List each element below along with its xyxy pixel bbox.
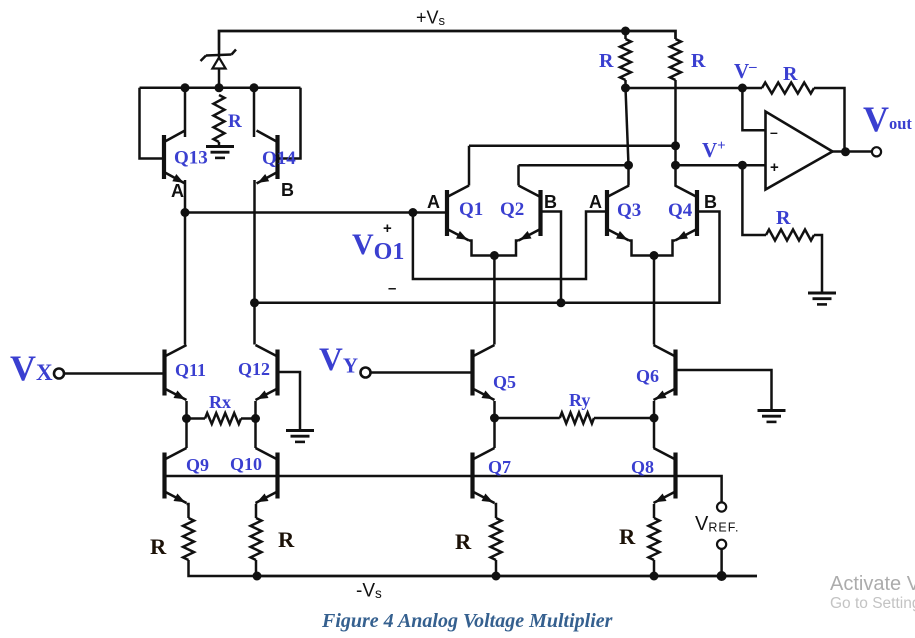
wire Q8 emitter stub: [653, 504, 656, 518]
junction rail / VREF: [717, 571, 727, 581]
wire Q1/Q2 tail: [493, 256, 496, 345]
svg-text:A: A: [589, 192, 602, 212]
wire Q14 base loop: [278, 88, 301, 159]
zener diode D1: [201, 50, 237, 88]
wire feedback to output: [814, 88, 845, 152]
junction Q1/Q4 collectors: [671, 141, 680, 150]
wire node A branch to Q3 base: [413, 212, 607, 280]
wire Q1 collector to right R: [469, 145, 676, 148]
wire Q1 emitter drop: [469, 241, 494, 256]
wire bias R bottom stub: [218, 142, 221, 146]
svg-text:Q6: Q6: [636, 366, 659, 386]
svg-text:Q7: Q7: [488, 457, 511, 477]
junction Q2/Q3 collectors: [624, 161, 633, 170]
op-amp U1: [766, 112, 833, 190]
wire Ry right lead: [594, 417, 654, 420]
wire -Vs rail: [257, 575, 757, 578]
junction Q1/Q2 emitters: [490, 251, 499, 260]
wire Q2 emitter drop: [494, 241, 518, 256]
svg-text:Q9: Q9: [186, 455, 209, 475]
resistor R (V+ to ground): [766, 230, 814, 241]
svg-text:Q4: Q4: [668, 200, 693, 221]
wire Q3/Q4 tail: [653, 256, 656, 345]
wire Ry left lead: [495, 417, 560, 420]
junction node A branch: [408, 208, 417, 217]
wire Q3 collector riser: [627, 165, 630, 185]
svg-text:Q3: Q3: [617, 200, 641, 221]
wire V- to op-amp inverting input: [742, 88, 765, 130]
wire Q7 emitter stub: [495, 504, 497, 518]
svg-text:Q1: Q1: [459, 199, 483, 220]
wire Q4 collector riser: [674, 146, 677, 187]
wire Q13 collector riser: [184, 88, 187, 137]
wire Q9 R to rail: [189, 560, 258, 576]
resistor R (Q10): [251, 518, 262, 560]
svg-text:B: B: [704, 192, 717, 212]
svg-text:R: R: [150, 534, 167, 559]
transistor Q2: [519, 186, 541, 241]
junction Rx right: [251, 414, 260, 423]
wire right load bottom: [674, 80, 677, 146]
resistor R (feedback): [762, 83, 814, 94]
junction top rail / left R: [621, 27, 630, 36]
wire Q9 emitter stub: [187, 504, 189, 518]
wire node B vertical: [253, 180, 256, 345]
svg-text:R: R: [228, 111, 242, 132]
resistor R (Q7): [491, 518, 502, 560]
svg-text:A: A: [427, 192, 440, 212]
ground (bias R): [206, 147, 234, 158]
wire VX to Q11 base: [64, 372, 165, 375]
junction node B / Q2 base: [557, 298, 566, 307]
wire VREF to rail: [720, 549, 723, 576]
wire Q2 base riser: [541, 212, 562, 303]
svg-text:Activate V: Activate V: [830, 573, 915, 595]
terminal VREF bottom: [717, 540, 726, 549]
transistor Q6: [654, 345, 676, 400]
wire Q10 R to rail: [255, 560, 258, 576]
junction output node: [841, 147, 850, 156]
wire Q14 collector riser: [253, 88, 256, 137]
transistor Q8: [654, 448, 676, 503]
svg-text:B: B: [544, 192, 557, 212]
svg-text:R: R: [619, 524, 636, 549]
wire node A vertical: [184, 180, 187, 345]
wire node A to Q1 base: [185, 211, 447, 214]
svg-text:Q10: Q10: [230, 454, 262, 474]
terminal Vout: [872, 147, 881, 156]
transistor Q3: [607, 186, 629, 241]
ground (op-amp R): [808, 293, 836, 304]
svg-text:R: R: [776, 207, 791, 229]
junction rail / Q8 R: [650, 572, 659, 581]
wire V+ to op-amp: [676, 164, 766, 167]
junction node A: [181, 208, 190, 217]
junction node B: [250, 298, 259, 307]
wire Rx left lead: [187, 417, 206, 420]
ground (Q6 base): [758, 411, 786, 422]
junction node bias / Q14 collector: [250, 83, 259, 92]
wire Rx right to Q10 collector: [254, 419, 257, 449]
svg-text:+: +: [383, 220, 392, 237]
wire Rx right lead: [241, 417, 256, 420]
transistor Q12: [256, 345, 278, 400]
resistor R (bias): [214, 95, 225, 142]
terminal VX: [54, 369, 64, 379]
wire Ry left to Q7 collector: [493, 418, 496, 448]
svg-text:–: –: [388, 280, 396, 297]
wire Q2 collector to left R: [519, 164, 629, 167]
svg-text:Q8: Q8: [631, 457, 654, 477]
svg-text:+: +: [770, 159, 779, 176]
svg-text:Go to Setting: Go to Setting: [830, 595, 915, 612]
wire left R top stub: [624, 31, 627, 39]
transistor Q7: [473, 448, 495, 503]
wire Q8 R to rail: [653, 560, 656, 576]
svg-text:–: –: [770, 124, 778, 140]
resistor Rx: [205, 413, 241, 424]
junction Q3/Q4 emitters: [650, 251, 659, 260]
wire Q4 emitter drop: [654, 241, 675, 256]
resistor R (Q8): [649, 518, 660, 560]
svg-text:Figure 4 Analog Voltage Multip: Figure 4 Analog Voltage Multiplier: [321, 610, 613, 632]
wire V- vertical to collectors: [626, 88, 629, 165]
junction V+ node: [671, 161, 680, 170]
transistor Q13: [164, 131, 185, 184]
svg-text:R: R: [599, 50, 614, 72]
svg-text:Q14: Q14: [262, 148, 296, 169]
junction V- tap: [738, 84, 747, 93]
wire Q12 base to ground: [278, 372, 301, 429]
transistor Q4: [675, 186, 697, 241]
wire node B to Q4 base: [255, 212, 720, 303]
junction rail / Q7 R: [492, 572, 501, 581]
wire Q5 emitter stub: [493, 401, 496, 418]
wire ground R to ground: [814, 235, 822, 292]
terminal VREF top: [717, 502, 726, 511]
junction Ry left: [490, 414, 499, 423]
ground (Q12 base): [286, 431, 314, 442]
svg-text:R: R: [455, 529, 472, 554]
junction V- node: [621, 84, 630, 93]
resistor R (left load): [620, 39, 631, 80]
transistor Q9: [165, 448, 187, 503]
svg-text:Q5: Q5: [493, 372, 516, 392]
wire V- to feedback R: [626, 87, 763, 90]
wire base rail Q9-Q8 to VREF: [165, 476, 722, 502]
transistor Q11: [165, 345, 187, 400]
svg-text:R: R: [691, 50, 706, 72]
wire Q7 R to rail: [495, 560, 498, 576]
svg-text:Rx: Rx: [209, 392, 231, 412]
junction node bias / Q13 collector: [181, 83, 190, 92]
svg-text:Q2: Q2: [500, 199, 524, 220]
transistor Q14: [257, 131, 278, 184]
wire Ry right to Q8 collector: [653, 418, 656, 448]
transistor Q5: [473, 345, 495, 400]
junction node bias / zener: [215, 83, 224, 92]
wire op-amp output: [833, 150, 872, 153]
svg-text:Q13: Q13: [174, 148, 208, 169]
wire Q10 emitter stub: [254, 504, 257, 518]
wire Q6 base to ground: [676, 370, 772, 409]
wire Q11 emitter stub: [185, 401, 188, 419]
wire Q3 emitter drop: [629, 241, 654, 256]
svg-text:Q11: Q11: [175, 360, 206, 380]
junction V+ tap: [738, 161, 747, 170]
svg-text:A: A: [171, 181, 184, 201]
wire bias node horizontal: [140, 87, 301, 90]
wire VY to Q5 base: [371, 371, 473, 374]
svg-text:R: R: [278, 527, 295, 552]
transistor Q1: [447, 186, 469, 241]
wire left load bottom: [624, 80, 627, 88]
wire Q2 collector riser: [517, 165, 520, 185]
junction Rx left: [182, 414, 191, 423]
wire +Vs rail: [219, 31, 676, 50]
svg-text:R: R: [783, 63, 798, 85]
wire Q6 emitter stub: [653, 401, 656, 418]
svg-text:Ry: Ry: [569, 390, 590, 410]
terminal VY: [361, 368, 371, 378]
svg-text:B: B: [281, 180, 294, 200]
wire Q12 emitter stub: [254, 401, 257, 419]
resistor R (Q9): [183, 518, 194, 560]
svg-text:Q12: Q12: [238, 359, 270, 379]
wire Q13 base loop: [140, 88, 165, 159]
wire V+ to ground R: [742, 165, 766, 235]
resistor R (right load): [670, 39, 681, 80]
wire Rx left to Q9 collector: [185, 419, 188, 449]
transistor Q10: [256, 448, 278, 503]
junction rail / Q10 R: [253, 572, 262, 581]
junction Ry right: [650, 414, 659, 423]
wire Q1 collector riser: [468, 146, 471, 186]
resistor Ry: [560, 413, 594, 424]
